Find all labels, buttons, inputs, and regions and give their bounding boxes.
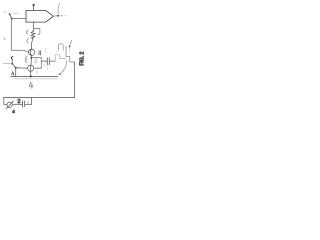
transistor Q2 base bar bbox=[30, 66, 32, 71]
arrowhead pointer bbox=[69, 45, 71, 47]
block 11 (pentagon box with arrow end) bbox=[26, 10, 53, 22]
wire Q1 emitter down bbox=[30, 56, 32, 65]
svg-text:2: 2 bbox=[17, 99, 20, 105]
wire from S1 junction to block 11 bbox=[12, 17, 26, 19]
numeral 16 curl left of Q2 bbox=[26, 57, 27, 63]
numeral 4 near rail left bbox=[12, 71, 14, 75]
output terminal blob bbox=[57, 15, 59, 17]
transistor Q2 envelope bbox=[28, 65, 34, 71]
leader arrowhead at rail bbox=[59, 73, 61, 75]
switch S1 fixed-contact stub (faint) bbox=[14, 12, 19, 14]
rail A dark (cathode line) bbox=[11, 76, 58, 78]
node dot rail A at Q2 bbox=[30, 75, 32, 77]
resistor zigzag 18 bbox=[31, 31, 35, 39]
wire vertical x66 bbox=[65, 46, 67, 57]
leader numerals left of resistor bbox=[27, 30, 29, 33]
faint numerals below capacitor C bbox=[43, 64, 46, 67]
numeral 6 blob above S2 bbox=[11, 57, 12, 60]
wire source to capacitor bbox=[12, 104, 22, 106]
wire capacitor to corner bbox=[25, 104, 31, 106]
transistor Q1 internal leads bbox=[30, 50, 31, 56]
capacitor C2 plates bbox=[23, 101, 25, 107]
faint numeral top-left bbox=[4, 12, 6, 13]
switch S2 top stub bbox=[11, 60, 13, 63]
switch S2 contact dot bbox=[11, 63, 13, 65]
wire capacitor right bbox=[50, 60, 56, 62]
svg-text:4: 4 bbox=[12, 109, 15, 114]
right rail vertical bbox=[74, 62, 76, 98]
wire vertical x41 bbox=[40, 58, 42, 69]
node junction dot at switch S1 bbox=[11, 18, 13, 20]
faint stub left of arch bbox=[56, 51, 58, 53]
source circle 22 bbox=[7, 102, 12, 107]
wire left rail down from S1 bbox=[10, 19, 12, 51]
source arrow slash bbox=[6, 102, 13, 109]
lead line numeral above box bbox=[33, 6, 35, 10]
switch S2 blade bbox=[12, 64, 15, 68]
wire jog up-right bbox=[55, 55, 66, 61]
node dot Q1 emitter junction bbox=[30, 57, 32, 59]
transistor Q1 base bar bbox=[29, 50, 31, 55]
wire from emitter junction right bbox=[31, 57, 41, 59]
numeral faint right of capacitor bbox=[27, 101, 29, 104]
svg-text:FIG. 2: FIG. 2 bbox=[80, 51, 86, 65]
arrow tail curve bbox=[70, 40, 72, 45]
leader curve pointing to rail end bbox=[60, 60, 67, 73]
switch S2 left stub (faint) bbox=[3, 63, 10, 65]
node junction dot S2 bbox=[15, 67, 17, 69]
wire rail corner to Q1 base bbox=[11, 50, 28, 52]
leader curve to output terminal bbox=[58, 3, 60, 14]
rail B faint bbox=[15, 78, 58, 80]
tube arch element bbox=[58, 44, 63, 51]
faint numeral near jog bbox=[44, 48, 47, 52]
wire corner up to bottom rail bbox=[30, 98, 32, 105]
numeral 1 blob above box bbox=[33, 4, 35, 7]
wire Q2 left lead bbox=[16, 67, 28, 69]
numeral curl right of Q2 bottom bbox=[36, 71, 39, 74]
wire bottom-left corner down to source bbox=[4, 98, 7, 105]
numeral tiny mark mid-left bbox=[4, 38, 6, 40]
numeral 17 stub (vertical with foot) bbox=[38, 29, 40, 35]
dashed output continuation bbox=[61, 15, 64, 17]
numeral 17 stub (horizontal) bbox=[34, 28, 40, 30]
wire from box bottom down bbox=[33, 22, 35, 31]
output wire from pentagon tip bbox=[53, 15, 57, 17]
switch S1 contact dot bbox=[9, 13, 11, 15]
wire corner to right rail bbox=[66, 57, 75, 63]
bottom rail bbox=[4, 97, 75, 99]
numeral 4 above bottom rail bbox=[29, 82, 33, 88]
wire Q2 bottom lead bbox=[30, 71, 32, 76]
faint numeral right of Q2 top bbox=[35, 59, 37, 63]
capacitor C plates bbox=[47, 58, 49, 65]
faint lead below arrowhead bbox=[68, 48, 70, 53]
switch S1 blade bbox=[10, 14, 12, 18]
numerals 15 ticks bbox=[39, 51, 41, 55]
wire capacitor branch left bbox=[41, 60, 47, 62]
wire Q2 right lead bbox=[34, 67, 42, 69]
wire S2 junction down to rail bbox=[15, 68, 17, 77]
wire jog from resistor to Q1 collector bbox=[32, 38, 33, 49]
transistor Q1 envelope bbox=[28, 49, 34, 55]
